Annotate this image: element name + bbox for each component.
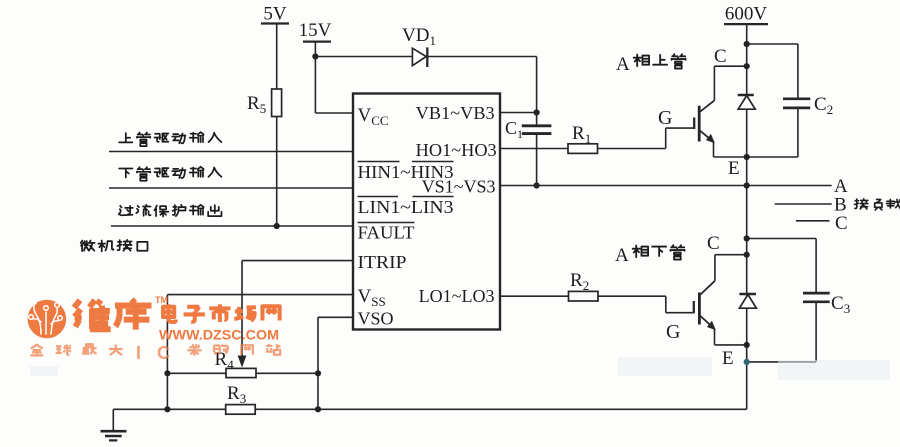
transistor Q1 collector lead [713,66,715,100]
svg-text:C3: C3 [831,293,850,316]
wire HO stub [500,148,568,150]
transistor Q1 emitter lead [700,131,713,142]
svg-text:I: I [136,343,141,363]
svg-text:HO1~HO3: HO1~HO3 [416,140,497,160]
svg-text:VS1~VS3: VS1~VS3 [422,177,496,197]
wire VS line to phase A [500,185,832,187]
wire VB stub [500,112,537,114]
svg-text:E: E [722,348,734,369]
wire ITRIP [242,260,353,262]
wire VSS [167,294,353,296]
wire main column [746,24,748,409]
diode D3 lower freewheel [739,293,756,295]
svg-text:C: C [835,213,848,234]
node 600V/C2 branch [744,41,750,47]
node VB junction [534,109,540,115]
wire ground stem [112,409,114,431]
watermark weiku characters [74,299,151,329]
smudge patches [30,357,890,380]
wire C2 bottom to emitter rung [797,108,799,157]
capacitor C3 [803,292,830,295]
wire 15V to VD1 anode [315,56,412,58]
svg-text:C: C [157,343,170,363]
svg-text:R2: R2 [570,270,589,293]
diode D2 upper freewheel [738,94,754,96]
svg-text:A: A [615,245,629,266]
wire R4 rung [167,372,318,374]
resistor R5 [272,89,282,117]
node upper collector junction [744,63,750,69]
wire VSO [318,316,353,318]
svg-text:C2: C2 [814,94,833,117]
wire collector rung upper [714,65,746,67]
wire 15V down [314,42,316,113]
wire input FAULT line [111,225,353,227]
wire input HIN line [109,151,353,153]
wire VD1 cathode to VB [427,56,536,58]
wire phase B stub [775,203,832,205]
node 15V/VD1 junction [312,53,318,59]
resistor R2 [569,291,599,301]
wire collector rung lower [715,254,747,256]
svg-text:VD1: VD1 [402,25,436,48]
transistor Q1 body bar [698,106,701,142]
node R3 right [315,406,321,412]
svg-text:G: G [658,107,672,129]
wire VB to C1 [536,113,538,126]
svg-text:TM: TM [155,295,168,305]
power rail 15V bar [303,40,331,42]
wire R2 to gate riser [598,295,666,297]
svg-text:R3: R3 [227,383,246,406]
svg-text:WWW.DZSC.COM: WWW.DZSC.COM [159,328,279,343]
svg-text:5V: 5V [263,4,287,25]
svg-text:R1: R1 [572,123,591,146]
label upper-drive input [119,132,221,146]
svg-text:C1: C1 [505,118,523,141]
wire to C2 top [747,43,798,45]
resistor R4 [226,368,256,377]
svg-text:15V: 15V [299,20,332,41]
wire 15V to VCC [315,112,353,114]
arrow ITRIP to R4 wiper [238,356,247,368]
transistor Q2 body bar [698,293,701,325]
svg-text:A: A [616,54,630,75]
wire phase C stub [796,220,830,222]
wire LO stub [500,295,569,297]
node C3 top branch [744,235,750,241]
wire emitter rung lower [715,344,747,346]
node R3 left [164,406,170,412]
svg-text:LO1~LO3: LO1~LO3 [419,286,495,306]
node VS/A junction [744,182,750,188]
watermark slogan row [30,343,280,363]
svg-text:ITRIP: ITRIP [358,252,407,272]
wire 5V to R5 [276,24,278,90]
label overcurrent output [119,205,222,217]
transistor Q2 collector lead [714,255,716,281]
wire emitter rung upper [714,156,747,158]
svg-text:LIN1~LIN3: LIN1~LIN3 [358,197,454,217]
wire C3 bottom [815,302,817,362]
svg-text:R5: R5 [247,93,266,116]
svg-text:C: C [707,233,720,254]
node FAULT/R5 junction [274,223,280,229]
svg-text:E: E [728,158,740,179]
resistor R1 [568,144,598,154]
resistor R3 [226,405,256,415]
power rail 5V bar [261,22,289,24]
svg-text:G: G [666,321,680,343]
capacitor C1 [522,124,552,127]
node R4 right [315,370,321,376]
node lower emitter junction [744,342,750,348]
ground [101,430,127,433]
node upper emitter junction [744,154,750,160]
transistor Q2 gate bar [693,301,695,313]
transistor Q1 gate bar [693,118,695,130]
wire R5 to FAULT line [276,117,278,227]
IC driver block IR2130 [353,94,500,330]
svg-text:C: C [714,46,727,67]
wire R1 to gate riser [598,148,666,150]
watermark market text [163,304,280,322]
node lower collector junction [744,252,750,258]
transistor Q2 emitter lead [700,316,714,329]
label microcomputer interface [81,240,148,252]
svg-text:VSO: VSO [358,309,394,329]
watermark logo circle [28,300,67,339]
label lower-drive input [119,167,221,181]
wire to C3 top [747,238,816,240]
power rail 600V bar [724,23,768,25]
node C1/VS junction [534,182,540,188]
wire input LIN line [109,187,353,189]
capacitor C2 [783,97,810,100]
wire bottom rail [113,408,746,410]
diode VD1 [412,48,426,65]
svg-text:600V: 600V [725,4,768,25]
svg-text:VB1~VB3: VB1~VB3 [416,103,495,123]
node C3 bottom junction [744,359,750,365]
svg-text:FAULT: FAULT [358,223,415,243]
node R4 left [164,370,170,376]
label connect load [855,199,900,210]
wire C1 to VS line [536,134,538,186]
